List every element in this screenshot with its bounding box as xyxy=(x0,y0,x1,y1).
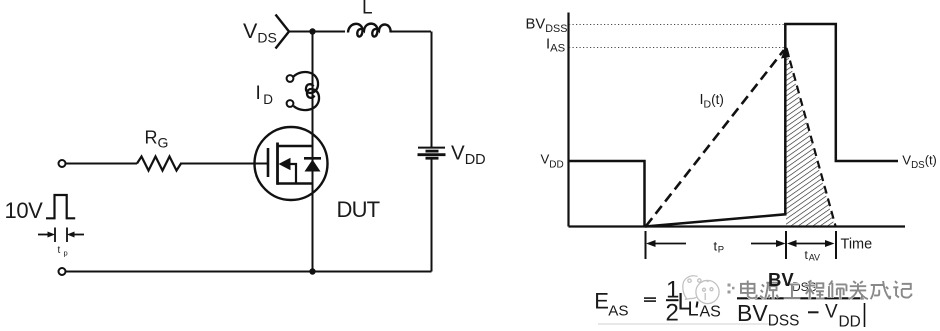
VDS waveform xyxy=(569,24,899,227)
bottom wire xyxy=(66,271,432,273)
y axis xyxy=(567,13,569,227)
transistor DUT body arrow xyxy=(279,158,291,170)
transistor DUT drain internal lead xyxy=(278,145,313,147)
pulse source 10V waveform xyxy=(46,195,75,218)
colon mark xyxy=(728,284,735,294)
node drain/VDS junction dot xyxy=(309,28,315,34)
ID current probe circles xyxy=(287,75,294,82)
svg-text:AV: AV xyxy=(809,252,820,262)
svg-text:Time: Time xyxy=(841,237,873,253)
transistor DUT source internal lead xyxy=(278,182,313,184)
svg-text:t: t xyxy=(58,245,61,256)
svg-text:10V: 10V xyxy=(5,198,44,223)
svg-text:DSS: DSS xyxy=(768,313,800,330)
tP arrow right segment xyxy=(751,243,783,245)
VDS probe bracket xyxy=(276,15,290,49)
svg-text:P: P xyxy=(718,245,724,256)
pulse width ticks xyxy=(54,228,56,243)
ID probe bottom hook xyxy=(294,89,320,110)
svg-text:AS: AS xyxy=(700,304,721,321)
tAV double arrow xyxy=(790,243,831,245)
transistor DUT channel bar xyxy=(276,143,279,185)
tP/tAV shared tick xyxy=(785,231,787,259)
char cheng xyxy=(871,281,891,299)
char dian xyxy=(741,281,757,299)
bottom terminal open circle xyxy=(59,268,66,275)
pulse width arrows xyxy=(38,234,50,236)
char shi xyxy=(829,281,847,300)
svg-text:E: E xyxy=(594,288,609,313)
char cheng2 xyxy=(805,281,825,300)
ID falling dashed line xyxy=(787,48,836,226)
top wire inductor to corner xyxy=(391,31,431,33)
svg-text:p: p xyxy=(64,249,68,258)
faint underline artifact xyxy=(598,323,775,325)
tP left tick xyxy=(645,231,647,259)
svg-text:BV: BV xyxy=(737,300,768,326)
BVDSS dotted reference line xyxy=(569,24,786,26)
tAV right tick xyxy=(835,231,837,259)
body diode of DUT cathode bar xyxy=(304,157,321,160)
logo cloud blob xyxy=(683,276,719,304)
node source/ground rail junction dot xyxy=(309,268,315,274)
svg-text:BV: BV xyxy=(768,269,794,290)
char yuan xyxy=(760,283,779,300)
char ji xyxy=(893,281,911,298)
wire probe to node xyxy=(289,31,313,33)
tP arrow left segment xyxy=(649,243,686,245)
wire drain vertical through device xyxy=(312,32,314,272)
right rail bottom xyxy=(431,159,433,272)
svg-text:L: L xyxy=(362,0,373,19)
ID(t) rising dashed line xyxy=(646,50,784,226)
char gong xyxy=(784,284,800,298)
svg-text:DUT: DUT xyxy=(337,197,380,222)
watermark text 电源工程师养成记 drawn as paths xyxy=(741,281,911,300)
inductor L xyxy=(348,24,391,37)
char yang xyxy=(849,281,868,300)
tick mark xyxy=(697,302,698,308)
ID peak arrowhead xyxy=(781,46,790,59)
right rail top xyxy=(431,32,433,148)
x axis xyxy=(569,225,906,227)
svg-text:AS: AS xyxy=(608,302,628,319)
IAS dotted reference line xyxy=(569,47,786,49)
transistor DUT (MOSFET) body circle xyxy=(255,127,328,200)
body diode of DUT anode triangle xyxy=(305,160,321,172)
svg-text:V: V xyxy=(825,302,838,323)
gate input terminal (open circle) xyxy=(59,160,66,167)
transistor DUT body stub xyxy=(290,164,297,184)
fraction bar xyxy=(737,297,864,299)
cursor bar xyxy=(864,303,866,327)
ID probe top hook xyxy=(294,72,319,93)
resistor RG xyxy=(137,157,181,171)
wire gate terminal to resistor xyxy=(66,163,138,165)
battery VDD xyxy=(418,147,445,149)
svg-text:DD: DD xyxy=(839,313,861,330)
logo face circle xyxy=(696,280,719,303)
wire resistor to gate xyxy=(180,163,267,165)
equals sign xyxy=(644,297,656,299)
hatched avalanche energy area xyxy=(786,48,835,226)
top wire node to inductor xyxy=(313,31,346,33)
transistor DUT gate bar xyxy=(267,148,270,177)
